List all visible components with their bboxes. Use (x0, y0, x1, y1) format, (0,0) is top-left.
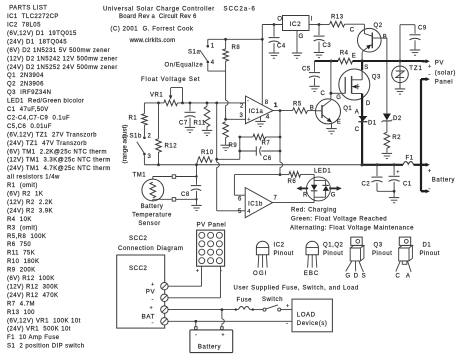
svg-text:O: O (277, 15, 282, 22)
svg-text:all resistors 1/4w: all resistors 1/4w (7, 175, 60, 181)
svg-text:(6V) D2 1N5231 5V 500mw zener: (6V) D2 1N5231 5V 500mw zener (7, 48, 110, 54)
svg-text:C1: C1 (403, 181, 412, 187)
svg-text:R12: R12 (165, 144, 178, 150)
svg-text:Pinout: Pinout (420, 251, 440, 257)
svg-text:+: + (428, 168, 432, 174)
svg-text:R13: R13 (331, 14, 344, 20)
svg-text:R4: R4 (340, 51, 349, 57)
svg-text:R7 4.7M: R7 4.7M (7, 301, 35, 307)
svg-text:2: 2 (240, 103, 244, 109)
svg-text:R1 (omit): R1 (omit) (7, 183, 38, 189)
svg-text:(6V) R2 1K: (6V) R2 1K (7, 192, 43, 198)
svg-text:(6V) TM1 2.2K@25c NTC therm: (6V) TM1 2.2K@25c NTC therm (7, 149, 107, 155)
svg-text:D1: D1 (423, 242, 432, 248)
svg-text:(24V) R2 3.9K: (24V) R2 3.9K (7, 208, 53, 214)
svg-text:IC2: IC2 (274, 242, 285, 248)
svg-text:+: + (247, 117, 251, 123)
svg-text:G: G (299, 33, 304, 40)
svg-text:R5,R8 100K: R5,R8 100K (7, 234, 46, 240)
svg-text:IC1b: IC1b (248, 202, 263, 208)
svg-text:G: G (336, 95, 341, 101)
svg-text:Battery: Battery (432, 176, 456, 183)
svg-text:E: E (352, 54, 357, 60)
svg-text:+: + (150, 305, 154, 311)
svg-text:Pinout: Pinout (372, 251, 392, 257)
svg-text:3: 3 (148, 154, 152, 160)
svg-text:Float Voltage Set: Float Voltage Set (141, 77, 200, 83)
svg-text:Green: Float Voltage Reached: Green: Float Voltage Reached (291, 216, 387, 222)
svg-text:Red: Charging: Red: Charging (291, 208, 337, 214)
svg-text:R10 180K: R10 180K (7, 259, 39, 265)
svg-text:LED1: LED1 (314, 169, 331, 175)
svg-text:C6: C6 (263, 156, 272, 162)
svg-text:7: 7 (274, 196, 278, 202)
svg-text:R2: R2 (392, 135, 401, 141)
svg-text:Board Rev a Circuit Rev 6: Board Rev a Circuit Rev 6 (119, 14, 197, 20)
svg-text:R6: R6 (288, 179, 297, 185)
svg-text:R10: R10 (201, 150, 214, 156)
svg-text:PARTS LIST: PARTS LIST (7, 6, 47, 12)
svg-text:S: S (364, 65, 369, 71)
svg-text:1: 1 (211, 44, 215, 50)
svg-text:C: C (350, 28, 355, 34)
svg-text:S1b: S1b (130, 133, 142, 139)
svg-text:Temperature: Temperature (132, 213, 172, 219)
svg-text:TZ1: TZ1 (409, 65, 423, 72)
svg-text:(range adjust): (range adjust) (122, 125, 129, 164)
svg-text:Battery: Battery (198, 343, 222, 350)
svg-text:G D S: G D S (346, 273, 367, 279)
svg-text:Fuse: Fuse (237, 297, 253, 303)
svg-text:C2: C2 (362, 181, 371, 187)
svg-text:Q1 2N3904: Q1 2N3904 (7, 73, 44, 79)
svg-text:C: C (355, 127, 360, 133)
svg-text:Q2 2N3906: Q2 2N3906 (7, 82, 44, 88)
svg-text:D: D (366, 101, 371, 107)
svg-text:I: I (311, 15, 313, 22)
svg-text:TM1: TM1 (133, 172, 147, 178)
svg-text:R3 (omit): R3 (omit) (7, 225, 38, 231)
svg-text:G: G (331, 193, 336, 199)
svg-text:S1a: S1a (188, 50, 200, 56)
svg-text:(12V) R2 2.2K: (12V) R2 2.2K (7, 200, 53, 206)
svg-text:R11: R11 (194, 120, 206, 126)
svg-text:3: 3 (240, 113, 244, 119)
svg-text:IC1a: IC1a (249, 109, 264, 115)
svg-text:Q3: Q3 (372, 74, 381, 80)
svg-text:Pinout: Pinout (323, 251, 343, 257)
svg-text:-: - (286, 320, 289, 327)
svg-text:R5: R5 (293, 102, 302, 108)
svg-text:8: 8 (265, 100, 269, 106)
svg-text:F1: F1 (406, 156, 414, 162)
svg-text:On/Equalize: On/Equalize (165, 63, 204, 69)
svg-text:R6 750: R6 750 (7, 242, 31, 248)
svg-text:(6V) R12 100K: (6V) R12 100K (7, 276, 55, 282)
svg-text:LOAD: LOAD (297, 311, 316, 318)
svg-text:F1 10 Amp Fuse: F1 10 Amp Fuse (7, 335, 60, 341)
svg-text:C A: C A (396, 273, 411, 279)
svg-text:+: + (221, 332, 225, 338)
svg-text:Q3 IRF9Z34N: Q3 IRF9Z34N (7, 90, 51, 96)
svg-text:(24V) D2 1N5252 24V 500mw zene: (24V) D2 1N5252 24V 500mw zener (7, 65, 118, 71)
svg-text:www.cirkits.com: www.cirkits.com (129, 38, 176, 44)
svg-text:4: 4 (266, 114, 270, 121)
svg-text:Sensor: Sensor (138, 221, 160, 227)
svg-text:C5,C6 0.01uF: C5,C6 0.01uF (7, 124, 52, 130)
svg-text:PV: PV (146, 289, 156, 296)
svg-text:A: A (355, 109, 360, 115)
svg-text:Battery: Battery (141, 204, 164, 210)
svg-text:SCC2: SCC2 (129, 235, 148, 242)
svg-text:C7: C7 (179, 120, 188, 126)
svg-text:Q1,Q2: Q1,Q2 (323, 242, 344, 248)
svg-text:User Supplied Fuse, Switch, an: User Supplied Fuse, Switch, and Load (234, 285, 359, 291)
svg-text:6: 6 (238, 196, 242, 202)
svg-text:R1: R1 (129, 116, 138, 122)
svg-text:4: 4 (211, 60, 215, 66)
svg-text:IC2 78L05: IC2 78L05 (7, 23, 41, 29)
svg-text:R4 10K: R4 10K (7, 217, 32, 223)
svg-text:(24V) TZ1 47V Transzorb: (24V) TZ1 47V Transzorb (7, 141, 87, 147)
svg-text:SCC2: SCC2 (129, 265, 148, 272)
svg-text:(6V,12V) D1 19TQ015: (6V,12V) D1 19TQ015 (7, 31, 77, 37)
svg-text:E: E (337, 120, 342, 126)
svg-text:-: - (152, 296, 155, 303)
svg-text:VR1: VR1 (150, 93, 163, 99)
svg-text:(solar): (solar) (435, 69, 456, 76)
svg-text:PV: PV (435, 59, 445, 66)
svg-text:R: R (303, 193, 308, 199)
svg-text:C9: C9 (418, 26, 427, 32)
svg-text:Connection Diagram: Connection Diagram (118, 245, 183, 252)
svg-text:R7: R7 (262, 140, 271, 146)
svg-text:-: - (247, 98, 250, 104)
svg-text:IC1 TLC2272CP: IC1 TLC2272CP (7, 14, 59, 20)
svg-text:Alternating: Float Voltage Mai: Alternating: Float Voltage Maintenance (290, 225, 414, 231)
svg-text:-: - (152, 319, 155, 326)
svg-text:(24V) TM1 4.7K@25c NTC therm: (24V) TM1 4.7K@25c NTC therm (7, 166, 111, 172)
svg-text:+: + (428, 64, 432, 70)
svg-text:S1 2 position DIP switch: S1 2 position DIP switch (7, 344, 85, 350)
svg-text:(12V) D2 1N5242 12V 500mw zene: (12V) D2 1N5242 12V 500mw zener (7, 56, 118, 62)
svg-text:D1: D1 (368, 121, 377, 127)
svg-text:(24V) R12 470K: (24V) R12 470K (7, 293, 58, 299)
svg-text:B: B (310, 105, 315, 111)
svg-text:R11 75K: R11 75K (7, 251, 35, 257)
svg-text:(6V,12V) TZ1 27V Transzorb: (6V,12V) TZ1 27V Transzorb (7, 132, 97, 138)
svg-text:Switch: Switch (262, 297, 283, 303)
svg-text:(12V) TM1 3.3K@25c NTC therm: (12V) TM1 3.3K@25c NTC therm (7, 158, 111, 164)
svg-text:C: C (321, 91, 326, 97)
svg-text:(24V) D1 18TQ045: (24V) D1 18TQ045 (7, 39, 67, 45)
svg-text:C4: C4 (277, 43, 286, 49)
svg-text:EBC: EBC (304, 270, 320, 277)
svg-text:C8: C8 (181, 192, 190, 198)
svg-text:Device(s): Device(s) (297, 320, 328, 327)
svg-text:C1 47uF,50V: C1 47uF,50V (7, 107, 49, 113)
svg-text:Pinout: Pinout (274, 251, 294, 257)
svg-text:SCC2a-6: SCC2a-6 (224, 6, 256, 12)
svg-text:(6V,12V) VR1 100K 10t: (6V,12V) VR1 100K 10t (7, 318, 81, 324)
svg-text:LED1 Red/Green bicolor: LED1 Red/Green bicolor (7, 99, 84, 105)
svg-text:1: 1 (274, 102, 278, 109)
svg-text:IC2: IC2 (290, 21, 302, 28)
svg-text:-: - (195, 331, 198, 338)
svg-text:C2-C4,C7-C9 0.1uF: C2-C4,C7-C9 0.1uF (7, 115, 70, 121)
svg-text:4: 4 (247, 209, 251, 215)
svg-text:+: + (286, 303, 290, 309)
svg-text:Q1: Q1 (343, 106, 352, 112)
svg-text:5: 5 (238, 209, 242, 215)
svg-text:Universal Solar Charge Control: Universal Solar Charge Controller (103, 6, 215, 12)
svg-text:C5: C5 (302, 67, 311, 73)
svg-text:R9 200K: R9 200K (7, 268, 36, 274)
svg-text:2: 2 (148, 134, 152, 140)
svg-text:(C) 2001 G. Forrest Cook: (C) 2001 G. Forrest Cook (110, 26, 194, 32)
svg-text:+: + (151, 282, 155, 288)
svg-text:Q2: Q2 (374, 23, 383, 29)
svg-text:B: B (383, 35, 388, 41)
svg-text:(24V) VR1 500K 10t: (24V) VR1 500K 10t (7, 327, 71, 333)
svg-text:R8: R8 (232, 45, 241, 51)
svg-text:+: + (396, 169, 400, 175)
svg-text:C3: C3 (323, 43, 332, 49)
svg-text:-: - (428, 71, 431, 78)
svg-text:PV Panel: PV Panel (197, 222, 227, 229)
svg-text:Q3: Q3 (374, 242, 383, 248)
svg-text:(12V) R12 300K: (12V) R12 300K (7, 284, 58, 290)
svg-text:+: + (196, 268, 200, 274)
svg-text:R13 100: R13 100 (7, 310, 35, 316)
svg-text:OGI: OGI (253, 270, 268, 277)
svg-text:Panel: Panel (435, 78, 453, 85)
svg-text:R9: R9 (229, 143, 238, 149)
svg-text:D2: D2 (393, 116, 402, 122)
